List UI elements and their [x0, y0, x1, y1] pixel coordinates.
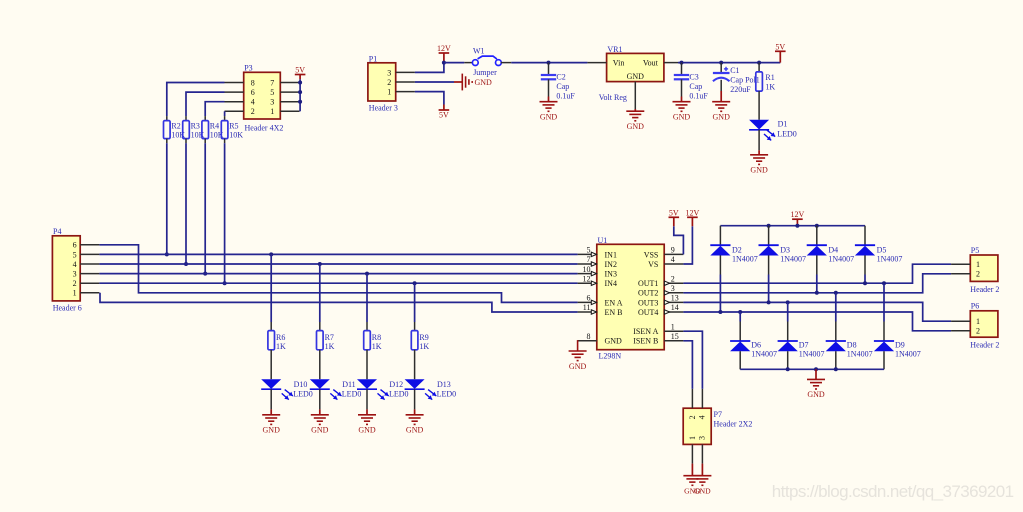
- pin 12 IN4 of U1: [578, 282, 597, 284]
- wire R2 to bus: [166, 143, 168, 254]
- svg-text:GND: GND: [713, 113, 731, 122]
- ground GND below D12: [366, 389, 368, 409]
- node C1 junction: [719, 61, 723, 65]
- connector P4 Header 6: [52, 236, 80, 301]
- svg-text:4: 4: [671, 255, 675, 264]
- wire D2 to OUT bus: [719, 275, 721, 313]
- svg-text:5V: 5V: [775, 42, 785, 51]
- svg-text:1: 1: [73, 289, 77, 298]
- svg-text:L298N: L298N: [599, 352, 622, 361]
- svg-text:ISEN A: ISEN A: [633, 327, 658, 336]
- ground GND below C3: [681, 97, 683, 102]
- node 12V junction: [442, 61, 446, 65]
- svg-text:LED0: LED0: [342, 390, 362, 399]
- node D7 junction: [786, 300, 790, 304]
- svg-text:0.1uF: 0.1uF: [556, 92, 575, 101]
- wire R5 to bus: [224, 143, 226, 283]
- ground GND at U1 pin 8: [577, 340, 579, 342]
- svg-text:Vout: Vout: [643, 58, 659, 67]
- svg-text:5V: 5V: [295, 66, 305, 75]
- svg-text:VS: VS: [648, 260, 658, 269]
- svg-text:D4: D4: [828, 246, 838, 255]
- svg-text:P1: P1: [369, 54, 377, 63]
- wire bus to R8: [366, 274, 368, 322]
- led D10 LED0: [270, 350, 272, 379]
- power 5V below P1: [443, 105, 445, 111]
- resistor R6 1K: [270, 322, 272, 331]
- wire GND rail below diodes: [740, 368, 884, 370]
- svg-text:IN3: IN3: [605, 270, 617, 279]
- pin 9 VSS of U1: [664, 253, 683, 255]
- wire OUT bus to D8: [835, 293, 837, 322]
- svg-text:GND: GND: [807, 390, 825, 399]
- diode D8 1N4007: [835, 322, 837, 342]
- svg-text:ISEN B: ISEN B: [633, 337, 658, 346]
- wire OUT bus to D9: [883, 283, 885, 321]
- svg-text:3: 3: [387, 68, 391, 77]
- svg-text:P4: P4: [53, 227, 61, 236]
- svg-text:8: 8: [251, 78, 255, 87]
- svg-text:OUT3: OUT3: [638, 298, 658, 307]
- svg-text:EN B: EN B: [605, 308, 623, 317]
- ground GND at P1 pin2: [454, 81, 462, 83]
- wire R3 to bus: [185, 143, 187, 264]
- wire P1 pin1 to 5V: [415, 92, 444, 105]
- svg-text:P7: P7: [714, 410, 722, 419]
- svg-text:R7: R7: [325, 333, 334, 342]
- svg-text:U1: U1: [598, 236, 608, 245]
- svg-text:D13: D13: [437, 380, 451, 389]
- svg-text:14: 14: [671, 303, 679, 312]
- node D5 junction: [863, 281, 867, 285]
- svg-text:4: 4: [697, 415, 706, 419]
- pin 11 EN B of U1: [578, 311, 597, 313]
- wire net IN2 from P4 pin4: [99, 263, 577, 265]
- svg-text:D3: D3: [780, 246, 790, 255]
- pin 4 VS of U1: [664, 263, 683, 265]
- node C2 junction: [547, 61, 551, 65]
- power 5V right of R1: [779, 51, 781, 62]
- svg-text:1K: 1K: [372, 342, 382, 351]
- node D4 junction: [815, 291, 819, 295]
- diode D3 1N4007: [768, 226, 770, 246]
- node R4 junction: [203, 272, 207, 276]
- resistor R2 10K: [166, 116, 168, 121]
- svg-text:LED0: LED0: [293, 390, 313, 399]
- diode D2 1N4007: [719, 226, 721, 246]
- svg-text:LED0: LED0: [777, 129, 797, 138]
- pin 1 of P1: [396, 91, 415, 93]
- svg-text:15: 15: [671, 332, 679, 341]
- node rail D4: [815, 224, 819, 228]
- node rail D3: [767, 224, 771, 228]
- pin 3 of P3: [280, 101, 299, 103]
- svg-text:R4: R4: [210, 121, 219, 130]
- svg-text:1: 1: [688, 436, 697, 440]
- svg-text:R5: R5: [229, 121, 238, 130]
- svg-text:10: 10: [583, 265, 591, 274]
- svg-text:1: 1: [387, 88, 391, 97]
- ground GND below D11: [319, 389, 321, 409]
- pin 3 of P1: [396, 71, 415, 73]
- pin 7 of P3: [280, 82, 299, 84]
- wire 12V rail above diodes: [720, 225, 865, 227]
- svg-text:P6: P6: [971, 302, 979, 311]
- wire 12V node to jumper W1: [444, 62, 464, 64]
- capacitor C2 0.1uF: [548, 63, 550, 75]
- pin 2 of P1: [396, 81, 415, 83]
- wire D5 to OUT bus: [864, 275, 866, 284]
- diode D9 1N4007: [883, 322, 885, 342]
- power 12V above U1: [683, 226, 692, 264]
- pin 13 OUT3 of U1: [664, 301, 683, 303]
- svg-text:2: 2: [976, 270, 980, 279]
- wire OUT4 to P6 pin2: [683, 312, 951, 331]
- svg-text:3: 3: [697, 436, 706, 440]
- pin 14 OUT4 of U1: [664, 311, 683, 313]
- wire net IN3 from P4 pin3: [99, 273, 577, 275]
- wire bus to R7: [319, 264, 321, 322]
- svg-text:W1: W1: [473, 47, 485, 56]
- svg-text:220uF: 220uF: [730, 85, 751, 94]
- svg-text:R8: R8: [372, 333, 381, 342]
- wire ISEN A to P7: [683, 331, 702, 389]
- svg-text:12V: 12V: [791, 210, 805, 219]
- pin 2 OUT1 of U1: [664, 282, 683, 284]
- pin 7 IN2 of U1: [578, 263, 597, 265]
- node D8 junction: [834, 291, 838, 295]
- svg-text:IN2: IN2: [605, 260, 617, 269]
- wire 5V column to P3 right pins: [299, 79, 301, 111]
- svg-text:3: 3: [671, 284, 675, 293]
- svg-text:OUT1: OUT1: [638, 279, 658, 288]
- pin 3 of P4: [80, 273, 99, 275]
- svg-text:1N4007: 1N4007: [751, 350, 777, 359]
- svg-text:Header 3: Header 3: [369, 103, 398, 112]
- pin 4 of P4: [80, 263, 99, 265]
- node D3 junction: [767, 300, 771, 304]
- svg-text:12V: 12V: [437, 44, 451, 53]
- ground GND below D10: [270, 389, 272, 409]
- wire bus to R6: [270, 254, 272, 322]
- svg-text:1K: 1K: [325, 342, 335, 351]
- svg-text:1K: 1K: [419, 342, 429, 351]
- node D6 junction: [738, 310, 742, 314]
- svg-text:Cap: Cap: [556, 82, 569, 91]
- svg-text:GND: GND: [311, 426, 329, 435]
- wire bus to R9: [414, 283, 416, 322]
- jumper W1: [464, 62, 472, 64]
- svg-text:3: 3: [73, 270, 77, 279]
- svg-text:C3: C3: [689, 72, 698, 81]
- pin 2 of P4: [80, 282, 99, 284]
- capacitor C1 220uF polarized: [720, 63, 722, 73]
- led D11 LED0: [319, 350, 321, 379]
- wire P1 pin2 to GND: [415, 81, 454, 83]
- svg-text:D12: D12: [389, 380, 403, 389]
- ground GND below D1: [758, 130, 760, 151]
- svg-text:2: 2: [387, 78, 391, 87]
- pin 1 of P6: [951, 320, 970, 322]
- svg-text:C1: C1: [730, 66, 739, 75]
- node R3 junction: [184, 262, 188, 266]
- node D9 junction: [882, 281, 886, 285]
- power 5V above U1: [674, 226, 684, 254]
- pin 6 EN A of U1: [578, 301, 597, 303]
- svg-text:D7: D7: [799, 340, 809, 349]
- svg-text:D6: D6: [751, 340, 761, 349]
- svg-text:2: 2: [73, 279, 77, 288]
- svg-text:5: 5: [73, 250, 77, 259]
- pin 3 OUT2 of U1: [664, 292, 683, 294]
- resistor R4 10K: [204, 116, 206, 121]
- node P3 pin5 junction: [298, 90, 302, 94]
- svg-text:VR1: VR1: [607, 45, 622, 54]
- node R6 junction: [269, 252, 273, 256]
- wire OUT bus to D6: [739, 312, 741, 322]
- svg-text:0.1uF: 0.1uF: [689, 92, 708, 101]
- svg-text:3: 3: [270, 98, 274, 107]
- node R9 junction: [413, 281, 417, 285]
- pin 1 of P3: [280, 110, 299, 112]
- wire OUT1 to P5 pin1: [683, 264, 951, 283]
- led D1 LED0: [758, 91, 760, 120]
- svg-text:Volt Reg: Volt Reg: [599, 93, 627, 102]
- pin 6 of P3: [225, 91, 244, 93]
- ic U1 L298N: [597, 244, 664, 349]
- resistor R9 1K: [414, 322, 416, 331]
- pin 8 GND of U1: [578, 340, 597, 342]
- diode D7 1N4007: [787, 322, 789, 342]
- svg-text:LED0: LED0: [389, 390, 409, 399]
- resistor R3 10K: [185, 116, 187, 121]
- svg-text:GND: GND: [750, 166, 768, 175]
- node P3 pin3 junction: [298, 100, 302, 104]
- svg-text:5V: 5V: [669, 208, 679, 217]
- connector P5 Header 2: [970, 255, 998, 281]
- svg-text:GND: GND: [694, 487, 711, 496]
- svg-text:D11: D11: [342, 380, 355, 389]
- svg-text:P3: P3: [244, 63, 252, 72]
- pin Vin of VR1: [587, 62, 606, 64]
- svg-text:Header 6: Header 6: [53, 303, 82, 312]
- svg-text:GND: GND: [627, 122, 645, 131]
- diode D4 1N4007: [816, 226, 818, 246]
- pin Vout of VR1: [664, 62, 678, 64]
- svg-text:C2: C2: [556, 72, 565, 81]
- svg-text:6: 6: [587, 294, 591, 303]
- svg-text:GND: GND: [475, 78, 493, 87]
- resistor R5 10K: [224, 116, 226, 121]
- svg-text:D10: D10: [294, 380, 308, 389]
- svg-text:GND: GND: [569, 362, 587, 371]
- power 12V above P1: [443, 53, 445, 63]
- wire net ENB from P4 pin1: [100, 293, 578, 312]
- svg-text:1: 1: [976, 317, 980, 326]
- power 12V above diode rail: [796, 219, 798, 226]
- svg-text:8: 8: [587, 332, 591, 341]
- ground GND below C1: [720, 91, 722, 102]
- ground GND below C2: [548, 97, 550, 102]
- svg-text:GND: GND: [263, 426, 281, 435]
- svg-text:Cap: Cap: [689, 82, 702, 91]
- resistor R8 1K: [366, 322, 368, 331]
- svg-text:GND: GND: [358, 426, 376, 435]
- node R5 junction: [223, 281, 227, 285]
- svg-text:5: 5: [270, 88, 274, 97]
- pin 3 of P7: [701, 444, 703, 463]
- pin 1 of P5: [951, 263, 970, 265]
- connector P6 Header 2: [970, 311, 998, 337]
- svg-text:Vin: Vin: [613, 58, 625, 67]
- wire net IN1 from P4 pin5: [99, 253, 577, 255]
- wire OUT3 to P6 pin1: [683, 302, 951, 321]
- connector P1 Header 3: [368, 63, 396, 101]
- led D13 LED0: [414, 350, 416, 379]
- pin 6 of P4: [80, 244, 99, 246]
- svg-text:1K: 1K: [765, 82, 775, 91]
- wire D3 to OUT bus: [768, 275, 770, 303]
- svg-text:D1: D1: [778, 120, 788, 129]
- node R7 junction: [318, 262, 322, 266]
- svg-text:12V: 12V: [686, 208, 700, 217]
- wire P3 to R5: [224, 111, 226, 116]
- resistor R1 1K: [758, 63, 760, 72]
- wire net ENA from P4 pin6: [99, 245, 577, 303]
- node gnd rail stub: [814, 367, 818, 371]
- svg-text:4: 4: [251, 98, 255, 107]
- svg-text:2: 2: [688, 415, 697, 419]
- node rail 12V stub: [795, 224, 799, 228]
- pin 2 of P3: [225, 110, 244, 112]
- svg-text:2: 2: [976, 327, 980, 336]
- svg-text:OUT2: OUT2: [638, 289, 658, 298]
- svg-text:D9: D9: [895, 340, 905, 349]
- svg-text:4: 4: [73, 260, 77, 269]
- wire D4 to OUT bus: [816, 275, 818, 293]
- svg-text:2: 2: [251, 107, 255, 116]
- svg-text:Header 2X2: Header 2X2: [714, 420, 753, 429]
- wire P3 to R3: [186, 92, 225, 116]
- svg-text:Header 4X2: Header 4X2: [245, 124, 284, 133]
- svg-text:R3: R3: [191, 121, 200, 130]
- svg-text:1N4007: 1N4007: [780, 255, 806, 264]
- pin 4 of P7: [701, 389, 703, 408]
- pin 2 of P6: [951, 330, 970, 332]
- svg-text:11: 11: [583, 303, 591, 312]
- wire P3 to R4: [205, 102, 224, 116]
- diode D5 1N4007: [864, 226, 866, 246]
- svg-text:GND: GND: [673, 113, 691, 122]
- svg-text:1K: 1K: [276, 342, 286, 351]
- wire R4 to bus: [204, 143, 206, 274]
- svg-text:P5: P5: [971, 246, 979, 255]
- wire net IN4 from P4 pin2: [99, 282, 577, 284]
- node R1 junction: [757, 61, 761, 65]
- ground GND below VR1: [634, 109, 636, 111]
- svg-text:12: 12: [583, 274, 591, 283]
- svg-text:D5: D5: [877, 246, 887, 255]
- svg-text:Header 2: Header 2: [970, 285, 999, 294]
- svg-text:6: 6: [251, 88, 255, 97]
- svg-text:D8: D8: [847, 340, 857, 349]
- pin 8 of P3: [225, 82, 244, 84]
- node gnd rail D7: [786, 367, 790, 371]
- ground GND below P7 pin3: [701, 464, 703, 476]
- resistor R7 1K: [319, 322, 321, 331]
- pin 15 ISEN B of U1: [664, 340, 683, 342]
- svg-text:D2: D2: [732, 246, 742, 255]
- pin 4 of P3: [225, 101, 244, 103]
- wire jumper to VR1 Vin: [511, 62, 587, 64]
- svg-text:1N4007: 1N4007: [828, 255, 854, 264]
- ground GND below diode rail: [815, 369, 817, 379]
- svg-text:Jumper: Jumper: [473, 68, 497, 77]
- pin 1 of P4: [80, 292, 99, 294]
- svg-text:9: 9: [671, 246, 675, 255]
- svg-text:2: 2: [671, 274, 675, 283]
- svg-text:R9: R9: [419, 333, 428, 342]
- ground GND below D13: [414, 389, 416, 409]
- connector P7 Header 2X2: [683, 408, 711, 444]
- svg-text:1: 1: [976, 260, 980, 269]
- svg-text:13: 13: [671, 294, 679, 303]
- svg-text:1N4007: 1N4007: [799, 350, 825, 359]
- node D2 junction: [718, 310, 722, 314]
- pin 5 of P4: [80, 253, 99, 255]
- node C3 junction: [680, 61, 684, 65]
- wire OUT2 to P5 pin2: [683, 274, 951, 293]
- wire P3 to R2: [167, 83, 225, 117]
- svg-text:5V: 5V: [439, 111, 449, 120]
- svg-text:IN4: IN4: [605, 279, 617, 288]
- svg-text:R6: R6: [276, 333, 285, 342]
- svg-text:7: 7: [587, 255, 591, 264]
- wire ISEN B to P7: [683, 341, 692, 389]
- svg-text:R2: R2: [171, 121, 180, 130]
- svg-text:1: 1: [270, 107, 274, 116]
- svg-text:IN1: IN1: [605, 250, 617, 259]
- svg-text:R1: R1: [765, 73, 774, 82]
- svg-text:EN A: EN A: [605, 298, 623, 307]
- pin 1 of P7: [691, 444, 693, 463]
- led D12 LED0: [366, 350, 368, 379]
- pin 1 ISEN A of U1: [664, 330, 683, 332]
- svg-text:1: 1: [671, 322, 675, 331]
- pin 2 of P5: [951, 273, 970, 275]
- diode D6 1N4007: [739, 322, 741, 342]
- svg-text:1N4007: 1N4007: [732, 255, 758, 264]
- pin 5 IN1 of U1: [578, 253, 597, 255]
- capacitor C3 0.1uF: [681, 63, 683, 75]
- node R8 junction: [365, 272, 369, 276]
- svg-text:1N4007: 1N4007: [847, 350, 873, 359]
- node R2 junction: [165, 252, 169, 256]
- svg-text:GND: GND: [627, 72, 645, 81]
- node gnd rail D8: [834, 367, 838, 371]
- pin 10 IN3 of U1: [578, 273, 597, 275]
- svg-text:6: 6: [73, 241, 77, 250]
- power 5V above P3: [295, 74, 306, 76]
- pin GND of VR1: [634, 82, 636, 109]
- svg-text:Header 2: Header 2: [970, 341, 999, 350]
- wire VR1 Vout to 5V rail: [678, 62, 780, 64]
- ground GND below P7 pin1: [691, 464, 693, 476]
- node P3 pin7 junction: [298, 81, 302, 85]
- connector P3 Header 4X2: [244, 72, 281, 119]
- svg-text:7: 7: [270, 78, 274, 87]
- wire P1 pin3 to 12V node: [415, 63, 444, 73]
